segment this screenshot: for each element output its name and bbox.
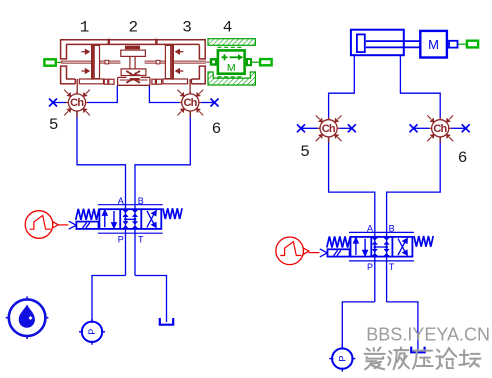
wire Ch5 down to valve A right circuit xyxy=(329,137,375,302)
wire Ch5 down to valve port A xyxy=(77,111,126,275)
load section 2 xyxy=(109,39,157,76)
flow arrows cylinder 1 xyxy=(82,50,90,74)
svg-text:M: M xyxy=(428,37,439,52)
check valve Ch6 right circuit xyxy=(427,115,453,141)
pulse signal source left circuit xyxy=(25,211,58,239)
oil drop indicator xyxy=(6,296,49,339)
svg-text:M: M xyxy=(227,62,236,74)
spring right of left valve xyxy=(163,208,182,219)
closed centre symbol left valve xyxy=(123,210,128,217)
svg-text:B: B xyxy=(389,224,395,234)
wire P to pump right circuit xyxy=(342,302,375,348)
crossed arrows box left valve xyxy=(147,211,156,228)
position sensor square left (green) xyxy=(44,59,61,65)
crossed arrows box right valve xyxy=(398,239,407,256)
svg-text:6: 6 xyxy=(458,149,468,167)
blocked port X left of Ch5 xyxy=(53,102,66,104)
blocked port X marks around Ch6 right circuit xyxy=(414,127,430,129)
port labels right valve xyxy=(367,224,395,272)
tank left circuit xyxy=(160,318,173,325)
spring left of left valve xyxy=(76,209,99,220)
wire T to tank left circuit xyxy=(135,276,167,323)
cylinder 3 xyxy=(163,39,206,84)
tank right circuit xyxy=(411,347,424,353)
wire Ch6 down to valve port B xyxy=(135,111,190,275)
char lun xyxy=(436,348,456,369)
4/3 proportional valve left circuit xyxy=(99,209,161,229)
svg-text:5: 5 xyxy=(49,116,59,134)
solenoid box right valve xyxy=(328,249,350,256)
piston of cylinder 1 xyxy=(91,44,100,79)
check valve Ch5 left circuit xyxy=(64,90,90,116)
side port boxes of load 2 xyxy=(152,79,162,84)
motor load 4 (green) xyxy=(208,39,255,85)
blocked port X right of Ch6 xyxy=(201,102,214,104)
svg-text:3: 3 xyxy=(182,18,192,36)
watermark Chinese characters xyxy=(365,348,481,370)
svg-text:P: P xyxy=(118,234,124,244)
svg-text:5: 5 xyxy=(300,143,310,161)
wire cylinder left port down to Ch5 right circuit xyxy=(329,55,355,119)
pump left circuit xyxy=(79,319,105,345)
pulse signal source right circuit xyxy=(276,237,309,265)
port line cylinder 1 to Ch5 xyxy=(76,79,78,94)
maroon stub below Ch6 xyxy=(189,111,191,117)
wire Ch5 right to load port xyxy=(88,86,117,103)
piston of cylinder 3 xyxy=(165,44,174,79)
closed centre symbol right valve xyxy=(372,237,377,244)
wire pulse source to solenoid left xyxy=(58,224,69,226)
svg-text:P: P xyxy=(367,262,373,272)
maroon stub below Ch5 xyxy=(76,111,78,117)
top guide hatched bar xyxy=(208,39,255,46)
wire P to pump left circuit xyxy=(92,276,126,322)
port line cylinder 3 to Ch6 xyxy=(189,79,191,94)
wire pulse source to solenoid right xyxy=(309,252,320,254)
wire T to tank right circuit xyxy=(387,302,418,350)
pump right circuit xyxy=(329,346,355,372)
svg-text:4: 4 xyxy=(223,18,233,36)
spring right of right valve xyxy=(414,236,433,247)
motor box M right circuit xyxy=(420,31,457,58)
check valve Ch6 left circuit xyxy=(177,90,203,116)
parallel arrows box right valve xyxy=(354,238,368,256)
char ai xyxy=(365,348,385,370)
rod of cylinder 1 xyxy=(61,60,120,64)
pilot arrow into solenoid left valve xyxy=(69,221,77,229)
rod of cylinder 3 xyxy=(145,60,210,64)
valve rails left circuit xyxy=(98,204,163,206)
char ye xyxy=(388,348,409,370)
dashed contact lines xyxy=(218,46,242,48)
svg-text:BBS.IYEYA.CN: BBS.IYEYA.CN xyxy=(366,324,490,344)
svg-text:A: A xyxy=(118,196,124,206)
M box xyxy=(218,50,245,73)
position sensor square right (green) xyxy=(260,59,272,65)
char tan xyxy=(459,350,480,366)
hydraulic cylinder right circuit xyxy=(351,30,421,56)
wire cylinder right port down to Ch6 right circuit xyxy=(400,55,440,119)
char ya xyxy=(413,351,433,369)
4/3 proportional valve right circuit xyxy=(351,237,413,257)
spring left of right valve xyxy=(327,237,350,248)
pilot arrow into solenoid right valve xyxy=(320,249,328,257)
svg-text:2: 2 xyxy=(128,18,138,36)
parallel arrows box left valve xyxy=(103,210,117,228)
wire motor to sensor square right xyxy=(252,61,260,63)
solenoid box left valve xyxy=(76,222,98,229)
tub of load 2 xyxy=(118,77,150,85)
svg-text:6: 6 xyxy=(212,120,222,138)
svg-text:T: T xyxy=(138,234,144,244)
check valve Ch5 right circuit xyxy=(316,115,342,141)
svg-text:B: B xyxy=(138,196,144,206)
valve rails right circuit xyxy=(349,231,414,233)
blocked port X marks around Ch5 right circuit xyxy=(301,127,318,129)
position sensor square right circuit (green) xyxy=(467,41,478,48)
maroon stub below Ch6 right xyxy=(439,137,441,143)
maroon stub below Ch5 right xyxy=(328,137,330,143)
port labels left valve xyxy=(118,196,144,244)
wire Ch6 down to valve B right circuit xyxy=(387,137,441,302)
wire motor to sensor right circuit (green) xyxy=(458,43,466,45)
svg-text:A: A xyxy=(367,224,373,234)
wire Ch6 left to load port xyxy=(149,86,179,103)
svg-text:1: 1 xyxy=(80,18,90,36)
coupling bowtie of load 2 xyxy=(127,71,140,82)
flow arrows cylinder 3 xyxy=(176,50,184,74)
cylinder 1 xyxy=(60,39,206,84)
bottom guide hatched bar xyxy=(208,72,255,85)
svg-text:T: T xyxy=(389,262,395,272)
